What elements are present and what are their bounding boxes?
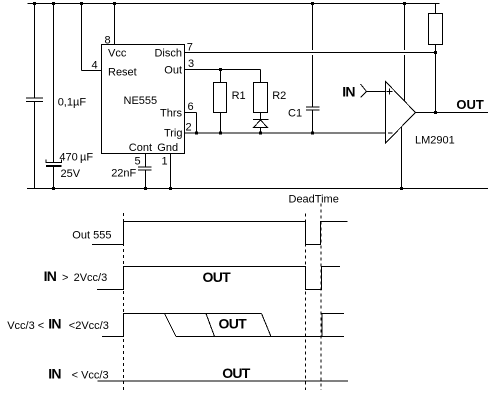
wire slant transition B: [206, 314, 215, 337]
svg-text:Out 555: Out 555: [72, 230, 111, 242]
svg-text:NE555: NE555: [124, 95, 158, 107]
junction top rail at 470uF: [52, 2, 55, 5]
svg-text:7: 7: [187, 42, 193, 54]
svg-text:IN: IN: [48, 366, 61, 382]
capacitor 470uF top plate: [46, 160, 62, 163]
svg-text:Vcc: Vcc: [108, 48, 127, 60]
wire R1 bottom lead: [220, 113, 222, 134]
svg-text:1: 1: [162, 156, 168, 168]
junction trig at diode: [259, 132, 262, 135]
junction ground at 22nF: [144, 187, 147, 190]
wire pin7 disch: [185, 52, 436, 54]
junction trig at C1: [311, 132, 314, 135]
capacitor C1 plate bottom: [306, 109, 320, 111]
svg-text:3: 3: [188, 58, 194, 70]
junction top rail at 0,1uF: [33, 2, 36, 5]
resistor R3 pullup: [429, 14, 443, 45]
svg-text:R1: R1: [232, 90, 246, 102]
wire IN plus input: [367, 91, 386, 93]
svg-text:22nF: 22nF: [111, 168, 136, 180]
wire pin4 reset horizontal: [82, 70, 102, 72]
wire pin8 vcc: [114, 4, 116, 45]
junction top rail at reset: [80, 2, 83, 5]
diode D1 cathode bar: [253, 119, 269, 121]
wire comparator V+ supply: [404, 4, 406, 102]
svg-text:DeadTime: DeadTime: [289, 194, 339, 206]
svg-text:25V: 25V: [61, 168, 81, 180]
svg-text:LM2901: LM2901: [415, 135, 455, 147]
resistor R1: [214, 83, 227, 113]
wire 22nF to ground rail: [145, 170, 147, 189]
svg-text:470: 470: [59, 152, 77, 164]
svg-text:8: 8: [105, 35, 111, 47]
svg-text:µF: µF: [80, 152, 93, 164]
junction trig at R1: [219, 132, 222, 135]
svg-text:<2Vcc/3: <2Vcc/3: [69, 320, 109, 332]
wire pin2 trig: [185, 132, 386, 134]
svg-text:Gnd: Gnd: [157, 142, 178, 154]
diode D1 triangle: [254, 120, 268, 128]
wire waveform IN mid low segment: [176, 336, 344, 338]
svg-text:2Vcc/3: 2Vcc/3: [74, 272, 108, 284]
wire slant transition A: [165, 314, 177, 337]
svg-text:6: 6: [188, 101, 194, 113]
op-amp U1 NE555 box: [102, 45, 185, 154]
wire 470uF branch upper: [53, 4, 55, 163]
svg-text:IN: IN: [48, 316, 61, 332]
svg-text:4: 4: [92, 60, 98, 72]
wire pin1 gnd: [170, 154, 172, 189]
svg-text:2: 2: [186, 122, 192, 134]
junction disch pullup node: [434, 51, 437, 54]
svg-text:IN: IN: [44, 268, 57, 284]
wire left branch (0,1uF) upper: [34, 4, 36, 99]
wire pin4 reset vertical: [81, 4, 83, 71]
junction output pullup: [434, 111, 437, 114]
junction ground at pin1: [169, 187, 172, 190]
wire pin6 thrs vertical: [196, 113, 198, 134]
wire waveform IN high: [97, 267, 340, 290]
capacitor 470uF bottom plate: [46, 165, 62, 167]
capacitor 0,1uF plate bottom: [26, 101, 43, 103]
node dashed deadtime right: [320, 204, 322, 391]
wire pin6 thrs horizontal: [185, 112, 197, 114]
node dashed timeline t0: [123, 213, 125, 390]
wire R1 top lead: [220, 70, 222, 83]
junction ground at 470uF: [52, 187, 55, 190]
svg-text:Disch: Disch: [154, 48, 182, 60]
wire waveform IN mid rise end: [322, 314, 344, 337]
op-amp plus input symbol: [387, 89, 393, 95]
svg-text:< Vcc/3: < Vcc/3: [72, 370, 109, 382]
wire slant transition C: [262, 314, 272, 337]
capacitor 22nF plate top: [138, 166, 152, 168]
svg-text:OUT: OUT: [203, 269, 232, 285]
junction top rail at V+ branch: [403, 2, 406, 5]
wire left branch (0,1uF) lower: [34, 102, 36, 189]
svg-text:OUT: OUT: [456, 97, 484, 112]
junction top rail at pin8: [113, 2, 116, 5]
svg-text:OUT: OUT: [222, 365, 251, 381]
svg-text:Cont: Cont: [129, 142, 152, 154]
wire pin5 cont lead: [145, 154, 147, 168]
wire C1 branch lower: [312, 110, 314, 133]
capacitor 0,1uF plate top: [26, 97, 43, 99]
wire waveform Out555: [92, 222, 348, 245]
svg-text:Reset: Reset: [108, 67, 137, 79]
svg-text:C1: C1: [288, 108, 302, 120]
wire Vcc top rail: [28, 3, 440, 5]
junction top rail at C1 branch: [311, 2, 314, 5]
wire pin3 out: [185, 69, 261, 71]
svg-text:>: >: [62, 272, 68, 284]
wire 470uF branch lower: [53, 167, 55, 189]
wire R2 top lead: [260, 70, 262, 83]
junction out line R1: [219, 68, 222, 71]
junction trig at thrs: [195, 132, 198, 135]
capacitor C1 plate top: [306, 106, 320, 108]
ground bottom rail: [27, 188, 488, 190]
node IN chevron: [361, 84, 367, 98]
wire diode bottom lead: [260, 128, 262, 134]
wire pullup bottom lead to disch node: [435, 45, 437, 113]
svg-text:5: 5: [135, 156, 141, 168]
op-amp U2 LM2901 triangle: [386, 82, 416, 144]
wire waveform IN low row: [98, 380, 349, 382]
svg-text:Out: Out: [164, 65, 182, 77]
capacitor 22nF plate bottom: [138, 169, 152, 171]
svg-text:0,1µF: 0,1µF: [58, 97, 87, 109]
svg-text:Vcc/3 <: Vcc/3 <: [7, 320, 44, 332]
svg-text:R2: R2: [272, 90, 286, 102]
wire R2 to diode: [260, 113, 262, 120]
svg-text:IN: IN: [342, 84, 355, 100]
wire waveform IN mid high segment: [102, 314, 262, 337]
node dashed deadtime left: [305, 214, 307, 391]
wire comparator output: [416, 112, 488, 114]
wire pullup resistor top lead: [435, 4, 437, 14]
op-amp minus input symbol: [388, 132, 393, 134]
wire C1 branch upper: [312, 4, 314, 108]
resistor R2: [254, 83, 268, 113]
svg-text:OUT: OUT: [219, 316, 248, 332]
svg-text:Thrs: Thrs: [160, 108, 183, 120]
wire comparator V- to ground: [401, 127, 403, 189]
junction ground at comparator V-: [400, 187, 403, 190]
svg-text:Trig: Trig: [164, 128, 183, 140]
